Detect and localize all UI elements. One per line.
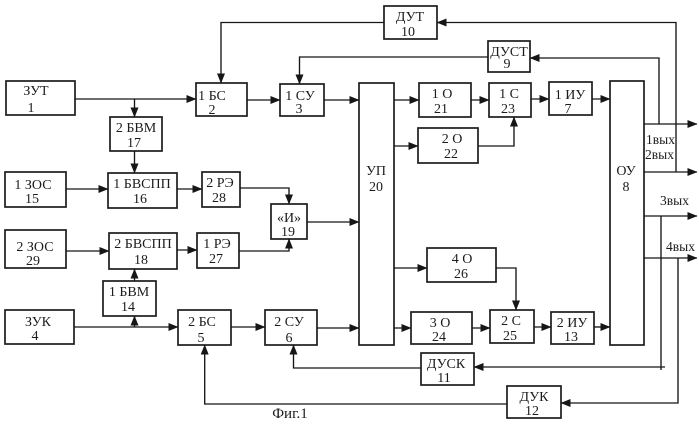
wire 4О to 2С top bbox=[496, 268, 516, 310]
block ДУСК 11 bbox=[421, 353, 474, 386]
svg-text:20: 20 bbox=[369, 180, 383, 195]
svg-text:15: 15 bbox=[25, 192, 39, 207]
block 2 БВМ 17 bbox=[110, 117, 162, 151]
block 1 ИУ 7 bbox=[549, 82, 592, 117]
wire 1С to 1ИУ bbox=[531, 98, 549, 100]
block 1 СУ 3 bbox=[280, 84, 324, 117]
block 2 ЗОС 29 bbox=[5, 230, 66, 269]
wire junction ЗУТ line to 2БВМ bbox=[134, 99, 136, 117]
svg-text:4 О: 4 О bbox=[452, 252, 473, 267]
svg-text:2 БВМ: 2 БВМ bbox=[116, 121, 157, 136]
block 2 РЭ 28 bbox=[202, 172, 240, 207]
wire 1БС to 1СУ bbox=[247, 99, 280, 101]
svg-text:4: 4 bbox=[32, 329, 39, 344]
wire «И» to УП bbox=[307, 221, 359, 223]
svg-text:УП: УП bbox=[366, 164, 386, 179]
block УП 20 bbox=[359, 83, 394, 345]
wire junction ЗУК line to 1БВМ bbox=[134, 316, 136, 327]
svg-text:4вых: 4вых bbox=[666, 239, 695, 254]
svg-text:1 БВМ: 1 БВМ bbox=[109, 285, 150, 300]
svg-text:16: 16 bbox=[133, 192, 147, 207]
wire 1БВМ to 2БВСПП bottom bbox=[134, 269, 136, 281]
wire 2ИУ to ОУ bbox=[594, 326, 610, 328]
wire output 1вых bbox=[644, 123, 697, 125]
wire УП to 4О bbox=[394, 267, 427, 269]
svg-text:1 ИУ: 1 ИУ bbox=[555, 88, 586, 103]
block 2 ИУ 13 bbox=[551, 312, 594, 345]
svg-text:1: 1 bbox=[28, 101, 35, 116]
block 1 РЭ 27 bbox=[197, 233, 239, 268]
svg-text:25: 25 bbox=[503, 329, 517, 344]
wire output 2вых bbox=[644, 171, 697, 173]
wire 3О to 2С bbox=[472, 327, 490, 329]
wire 2БС to 2СУ bbox=[231, 326, 265, 328]
svg-text:3вых: 3вых bbox=[660, 193, 689, 208]
svg-text:«И»: «И» bbox=[277, 211, 301, 226]
svg-text:2 ЗОС: 2 ЗОС bbox=[16, 240, 53, 255]
svg-text:Фиг.1: Фиг.1 bbox=[272, 406, 308, 422]
wire 1О to 1С bbox=[471, 99, 489, 101]
svg-text:17: 17 bbox=[127, 136, 141, 151]
block 2 СУ 6 bbox=[265, 310, 317, 346]
block 1 ЗОС 15 bbox=[5, 172, 66, 207]
svg-text:2 ИУ: 2 ИУ bbox=[557, 316, 588, 331]
svg-text:ДУСК: ДУСК bbox=[427, 357, 466, 372]
svg-text:14: 14 bbox=[121, 300, 135, 315]
block 2 БВСПП 18 bbox=[109, 233, 177, 269]
wire 1СУ to УП bbox=[324, 99, 359, 101]
block ЗУК 4 bbox=[5, 310, 74, 344]
svg-text:27: 27 bbox=[209, 252, 223, 267]
svg-text:19: 19 bbox=[281, 225, 295, 240]
wire feedback 4вых to ДУК bbox=[561, 258, 678, 403]
svg-text:3 О: 3 О bbox=[430, 316, 451, 331]
svg-text:6: 6 bbox=[286, 331, 293, 346]
block 1 БС 2 bbox=[196, 83, 247, 118]
block ДУСТ 9 bbox=[488, 41, 530, 72]
wire 2С to 2ИУ bbox=[534, 326, 551, 328]
wire УП to 3О bbox=[394, 327, 411, 329]
block 2 О 22 bbox=[418, 128, 478, 163]
block 3 О 24 bbox=[411, 312, 472, 345]
svg-text:1 С: 1 С bbox=[499, 87, 519, 102]
wire 2ЗОС to 2БВСПП bbox=[66, 250, 109, 252]
wire feedback 1вых to ДУСТ bbox=[530, 58, 659, 124]
wire ЗУТ to 1БС bbox=[75, 98, 196, 100]
svg-text:1 БС: 1 БС bbox=[198, 89, 226, 104]
wire УП to 2О bbox=[394, 145, 418, 147]
svg-text:10: 10 bbox=[401, 25, 415, 40]
svg-text:ДУТ: ДУТ bbox=[396, 10, 425, 25]
wire УП to 1О bbox=[394, 99, 419, 101]
wire ДУК to 2БС bottom bbox=[205, 345, 507, 404]
svg-text:12: 12 bbox=[525, 404, 539, 419]
block 2 БС 5 bbox=[178, 310, 231, 346]
svg-text:11: 11 bbox=[437, 371, 450, 386]
block 1 С 23 bbox=[489, 83, 531, 117]
svg-text:8: 8 bbox=[623, 180, 630, 195]
block 2 С 25 bbox=[490, 310, 534, 344]
svg-text:13: 13 bbox=[564, 330, 578, 345]
wire 1ЗОС to 1БВСПП bbox=[66, 188, 108, 190]
svg-text:24: 24 bbox=[432, 330, 446, 345]
svg-text:28: 28 bbox=[212, 191, 226, 206]
svg-text:2 О: 2 О bbox=[442, 132, 463, 147]
block «И» 19 bbox=[271, 204, 307, 240]
wire 1БВСПП to 2РЭ bbox=[177, 188, 202, 190]
svg-text:2: 2 bbox=[209, 103, 216, 118]
svg-text:9: 9 bbox=[504, 57, 511, 72]
block 1 БВСПП 16 bbox=[108, 173, 177, 208]
svg-text:2 РЭ: 2 РЭ bbox=[206, 176, 234, 191]
block ДУТ 10 bbox=[384, 6, 437, 40]
wire ЗУК to 2БС bbox=[74, 326, 178, 328]
svg-text:1 РЭ: 1 РЭ bbox=[203, 237, 231, 252]
block 1 БВМ 14 bbox=[103, 281, 156, 316]
wire 1РЭ to «И» bottom bbox=[239, 239, 289, 251]
wire ДУТ to 1БС top bbox=[221, 23, 384, 84]
svg-text:2 СУ: 2 СУ bbox=[274, 315, 304, 330]
svg-text:22: 22 bbox=[444, 147, 458, 162]
block ОУ 8 bbox=[610, 81, 644, 345]
svg-text:ЗУТ: ЗУТ bbox=[23, 84, 49, 99]
svg-text:23: 23 bbox=[501, 102, 515, 117]
wire output 3вых bbox=[644, 215, 697, 217]
wire 2БВМ to 1БВСПП bbox=[134, 151, 136, 173]
wire 2СУ to УП bbox=[317, 327, 359, 329]
svg-text:26: 26 bbox=[454, 267, 468, 282]
svg-text:7: 7 bbox=[565, 102, 572, 117]
svg-text:ДУК: ДУК bbox=[520, 390, 550, 405]
svg-text:1 О: 1 О bbox=[432, 87, 453, 102]
block 4 О 26 bbox=[427, 248, 496, 282]
wire 2БВСПП to 1РЭ bbox=[177, 249, 197, 251]
svg-text:5: 5 bbox=[198, 331, 205, 346]
svg-text:2вых: 2вых bbox=[645, 147, 674, 162]
svg-text:ОУ: ОУ bbox=[616, 164, 635, 179]
wire 2О to 1С bottom bbox=[478, 117, 514, 146]
wire feedback 3вых to ДУСК bbox=[474, 216, 665, 370]
block ДУК 12 bbox=[507, 386, 561, 419]
svg-text:2 БВСПП: 2 БВСПП bbox=[114, 237, 171, 252]
svg-text:21: 21 bbox=[434, 102, 448, 117]
wire feedback 2вых to ДУТ bbox=[437, 23, 676, 173]
wire output 4вых bbox=[644, 257, 697, 259]
wire ДУСК to 2СУ bottom bbox=[294, 345, 422, 368]
svg-text:29: 29 bbox=[26, 254, 40, 269]
svg-text:1 ЗОС: 1 ЗОС bbox=[14, 178, 51, 193]
wire 1ИУ to ОУ bbox=[592, 98, 610, 100]
block ЗУТ 1 bbox=[6, 81, 75, 116]
svg-text:1вых: 1вых bbox=[646, 132, 675, 147]
svg-text:3: 3 bbox=[296, 102, 303, 117]
wire 2РЭ to «И» top bbox=[240, 188, 289, 204]
svg-text:2 С: 2 С bbox=[501, 314, 521, 329]
svg-text:2 БС: 2 БС bbox=[188, 315, 216, 330]
svg-text:1 БВСПП: 1 БВСПП bbox=[113, 177, 170, 192]
block 1 О 21 bbox=[419, 83, 471, 117]
svg-text:18: 18 bbox=[134, 253, 148, 268]
svg-text:ЗУК: ЗУК bbox=[25, 315, 52, 330]
wire ДУСТ to 1СУ top bbox=[300, 57, 489, 84]
